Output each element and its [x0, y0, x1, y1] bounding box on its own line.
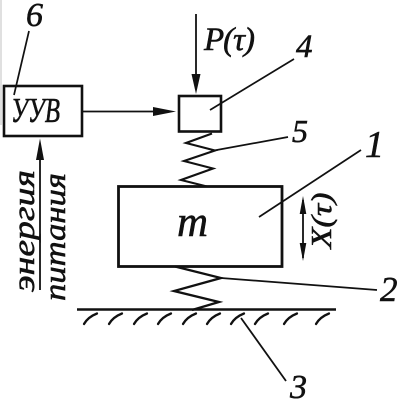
svg-text:энергия: энергия: [6, 170, 41, 292]
ground hatch marks: [84, 314, 329, 325]
leader line to 3: [241, 318, 286, 381]
spring 5: [181, 134, 215, 187]
leader line to 4: [210, 59, 294, 110]
svg-text:1: 1: [365, 124, 384, 166]
actuator box 4: [179, 96, 221, 132]
scan edge artifact: [0, 0, 2, 125]
leader line to 2: [221, 278, 377, 290]
svg-text:m: m: [177, 199, 208, 246]
arrowhead into box 4: [192, 74, 201, 94]
mass box 1: [119, 187, 283, 267]
svg-text:2: 2: [380, 270, 398, 309]
svg-text:УУВ: УУВ: [11, 91, 60, 130]
leader line to 6: [14, 31, 29, 95]
force input wire P: [195, 14, 197, 77]
power supply arrow into UUV: [39, 148, 41, 290]
leader line to 5: [214, 137, 288, 151]
displacement arrow X: [302, 200, 304, 258]
svg-text:3: 3: [289, 369, 307, 400]
svg-text:6: 6: [26, 0, 43, 34]
leader line to 1: [259, 150, 361, 217]
svg-text:4: 4: [296, 29, 313, 65]
ground line: [77, 308, 336, 311]
wire UUV to box4 with arrowhead: [83, 111, 156, 113]
svg-text:5: 5: [292, 113, 308, 149]
svg-text:питания: питания: [37, 173, 72, 301]
spring 2: [174, 267, 221, 311]
svg-text:P(τ): P(τ): [203, 22, 254, 58]
control unit box UUV: [4, 86, 82, 136]
svg-text:X(τ): X(τ): [306, 193, 338, 250]
